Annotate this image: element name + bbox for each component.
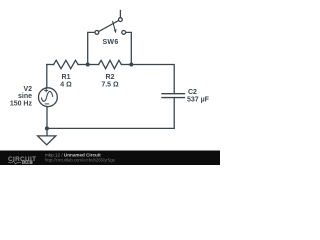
svg-text:150 Hz: 150 Hz	[10, 100, 33, 107]
wire left rail top	[46, 65, 48, 88]
svg-text:537 µF: 537 µF	[187, 96, 210, 103]
wire bottom rail	[47, 127, 174, 129]
capacitor C2	[162, 94, 184, 98]
svg-text:V2: V2	[23, 86, 32, 93]
junction node A	[86, 63, 90, 67]
svg-text:SW6: SW6	[102, 39, 118, 46]
wire R2 to node B	[121, 64, 131, 66]
svg-text:C2: C2	[188, 89, 197, 96]
voltage source V2	[39, 88, 58, 107]
wire R1 to node A	[78, 64, 88, 66]
svg-text:R1: R1	[62, 74, 71, 81]
svg-text:4 Ω: 4 Ω	[60, 82, 72, 89]
footer bar	[0, 151, 220, 166]
footer logo CIRCUIT	[8, 153, 116, 165]
wire node B to top-right corner and down to C2	[131, 65, 174, 94]
wire V2 bottom to ground	[46, 107, 48, 136]
labels	[10, 39, 210, 107]
wire node A to R2	[88, 64, 99, 66]
svg-text:R2: R2	[106, 74, 115, 81]
svg-text:LAB: LAB	[23, 161, 31, 165]
footer logo LAB	[22, 160, 33, 164]
wire top-left horizontal lead to R1	[47, 64, 54, 66]
wire C2 bottom down	[173, 98, 175, 129]
junction node ground rail	[45, 126, 49, 130]
footer logo waveform	[8, 161, 21, 164]
svg-text:http://circuitlab.com/c/cbuh26: http://circuitlab.com/c/cbuh265/yr5ge	[45, 158, 116, 163]
ground	[38, 136, 56, 145]
resistor R2	[99, 60, 122, 68]
svg-text:7.5 Ω: 7.5 Ω	[101, 82, 119, 89]
resistor R1	[54, 60, 79, 68]
svg-text:sine: sine	[18, 93, 32, 100]
wire switch right branch	[126, 32, 132, 64]
wire switch left branch	[88, 32, 95, 64]
junction node B	[129, 63, 133, 67]
switch SW6	[95, 11, 126, 35]
